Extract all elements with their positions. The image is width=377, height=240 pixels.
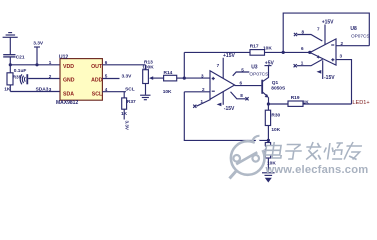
node junction R14/pin3/R17 xyxy=(183,77,186,80)
svg-text:6: 6 xyxy=(105,60,108,65)
pin 1 no-connect (U3) xyxy=(193,100,210,108)
resistor R31 xyxy=(265,140,270,172)
resistor R19 xyxy=(268,101,351,106)
microphone MK1 xyxy=(20,74,27,84)
pin 5 no-connect (U3) xyxy=(233,72,250,76)
svg-text:10K: 10K xyxy=(263,45,272,51)
svg-text:10K: 10K xyxy=(163,89,172,95)
svg-text:R13: R13 xyxy=(144,59,153,65)
svg-text:3: 3 xyxy=(201,73,204,78)
wire U8 plus input to LED1+ node xyxy=(336,60,352,104)
wire SDA row xyxy=(10,91,60,93)
power +5V (Q1 collector) xyxy=(265,65,272,67)
wire OUT pin6 to R13 xyxy=(102,64,145,66)
feedback wire rectangle (U8 output to minus) xyxy=(283,13,369,52)
wire U3 output pin6 to Q1 base xyxy=(235,85,262,87)
pin 1 no-connect (U8) xyxy=(294,59,323,67)
svg-text:SDA3: SDA3 xyxy=(36,86,49,92)
svg-text:7: 7 xyxy=(317,27,320,32)
svg-text:R19: R19 xyxy=(291,95,300,101)
capacitor C21 xyxy=(3,55,15,65)
ground (below R13) xyxy=(140,95,150,100)
wire ADD pin5 to 3.3V xyxy=(102,78,119,80)
resistor R30 xyxy=(265,104,270,140)
svg-text:3: 3 xyxy=(49,87,52,92)
pin 4 -15V stub (U3) xyxy=(217,91,224,106)
svg-text:2: 2 xyxy=(341,41,344,46)
svg-text:+15V: +15V xyxy=(322,20,334,26)
svg-text:SCL: SCL xyxy=(125,86,135,92)
wire SCL pin4 xyxy=(102,91,126,93)
svg-text:R14: R14 xyxy=(164,70,173,76)
svg-text:8050S: 8050S xyxy=(271,86,286,92)
svg-text:6: 6 xyxy=(240,80,243,85)
svg-text:1K: 1K xyxy=(4,87,11,93)
pin 4 -15V stub (U8) xyxy=(317,60,323,79)
pin 7 +15V stub (U8) xyxy=(324,25,326,45)
node junction emitter xyxy=(267,102,270,105)
svg-text:GND: GND xyxy=(63,77,75,83)
wire R17 to op-amp U8 output node xyxy=(265,51,310,53)
node junction feedback left xyxy=(282,51,285,54)
wire feedback bottom (divider to U3 pin2) xyxy=(184,92,268,141)
svg-text:U12: U12 xyxy=(59,54,68,60)
svg-text:100K: 100K xyxy=(142,64,154,70)
op-amp U12 box (MAX9812) xyxy=(60,59,102,101)
svg-text:1: 1 xyxy=(49,60,52,65)
resistor R14 xyxy=(164,75,185,81)
pin 8 no-connect (U3) xyxy=(231,92,249,101)
svg-text:1K: 1K xyxy=(303,99,310,105)
svg-text:2: 2 xyxy=(49,74,52,79)
transistor Q1 xyxy=(262,66,269,104)
svg-text:SCL: SCL xyxy=(92,91,103,97)
svg-text:2: 2 xyxy=(202,87,205,92)
svg-text:5: 5 xyxy=(241,67,244,72)
op-amp U3 triangle xyxy=(210,71,235,99)
svg-text:4: 4 xyxy=(317,54,320,59)
watermark text dianzifashaoyou (hand-drawn glyphs) xyxy=(265,142,363,160)
svg-text:www.elecfans.com: www.elecfans.com xyxy=(265,164,369,176)
svg-text:10K: 10K xyxy=(271,127,280,133)
svg-text:R17: R17 xyxy=(250,44,259,50)
potentiometer R13 xyxy=(143,65,164,95)
ground (below R31) xyxy=(262,173,275,183)
svg-text:R30: R30 xyxy=(271,112,280,118)
svg-text:6: 6 xyxy=(301,46,304,51)
glyph zi xyxy=(284,145,303,160)
resistor R17 xyxy=(250,50,265,56)
svg-text:1: 1 xyxy=(301,61,304,66)
resistor R37 xyxy=(122,92,127,120)
glyph you xyxy=(344,142,362,160)
svg-text:OUT: OUT xyxy=(91,64,103,70)
svg-text:R37: R37 xyxy=(127,99,136,105)
svg-text:3.3V: 3.3V xyxy=(125,121,130,131)
glyph fa xyxy=(305,142,323,160)
svg-text:SDA: SDA xyxy=(63,91,74,97)
svg-text:VDD: VDD xyxy=(63,64,74,70)
svg-text:Q1: Q1 xyxy=(272,80,279,86)
node junction at C21/VDD xyxy=(9,63,12,66)
watermark logo xyxy=(230,136,267,179)
svg-text:3.3V: 3.3V xyxy=(33,40,44,46)
wire R17 row (left part) xyxy=(184,51,250,53)
wire mic to GND pin xyxy=(28,78,60,80)
wire U8 minus input xyxy=(336,45,369,47)
pin 8 no-connect (U8) xyxy=(294,33,322,41)
svg-text:LED1+: LED1+ xyxy=(352,100,369,106)
svg-text:U8: U8 xyxy=(350,26,357,32)
svg-text:5: 5 xyxy=(105,74,108,79)
svg-text:1K: 1K xyxy=(121,111,128,117)
svg-text:-15V: -15V xyxy=(224,106,235,112)
svg-text:+5V: +5V xyxy=(265,60,275,66)
svg-text:OP07CS: OP07CS xyxy=(351,34,370,39)
svg-text:8: 8 xyxy=(302,29,305,34)
node junction at 3.3V/VDD xyxy=(35,63,38,66)
svg-text:0.1uF: 0.1uF xyxy=(14,68,27,74)
wire VDD row xyxy=(10,64,60,66)
svg-text:8: 8 xyxy=(240,93,243,98)
wire pin2 row into U3 xyxy=(184,91,210,93)
svg-text:-15V: -15V xyxy=(324,75,335,81)
svg-text:7: 7 xyxy=(217,63,220,68)
power 3.3V (left) xyxy=(34,47,40,65)
glyph shao xyxy=(323,143,344,160)
svg-text:MAX9812: MAX9812 xyxy=(56,100,78,106)
svg-text:ADD: ADD xyxy=(91,77,102,83)
svg-text:U3: U3 xyxy=(251,64,258,70)
svg-text:+15V: +15V xyxy=(223,53,235,59)
ground (top-left, above C21) xyxy=(3,33,18,55)
svg-text:1: 1 xyxy=(201,99,204,104)
glyph dian xyxy=(265,142,283,158)
svg-text:OP07CS: OP07CS xyxy=(249,72,268,78)
svg-text:C21: C21 xyxy=(16,55,25,61)
resistor R35 xyxy=(7,65,13,92)
op-amp U8 triangle (mirrored) xyxy=(310,39,336,65)
node junction at U8 output tip xyxy=(308,51,311,54)
wire junction to op-amp pin3 xyxy=(184,77,210,79)
wire vertical junction up to R17 row xyxy=(183,52,185,78)
pin 7 +15V stub (U3) xyxy=(222,58,224,79)
svg-text:3.3V: 3.3V xyxy=(122,74,133,80)
node junction divider xyxy=(267,139,270,142)
svg-text:3: 3 xyxy=(340,53,343,58)
